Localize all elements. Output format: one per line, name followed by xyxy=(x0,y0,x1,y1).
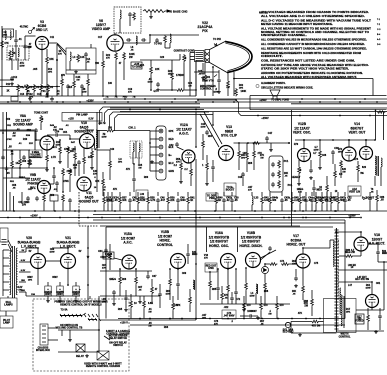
wire HV bottom rail xyxy=(291,332,336,334)
wire xyxy=(311,192,313,196)
coil T4 secondary xyxy=(139,143,140,152)
ground V8A cathode xyxy=(45,168,49,171)
integrator capacitor 1 xyxy=(271,162,275,167)
svg-text:R95: R95 xyxy=(118,309,123,311)
wire xyxy=(62,176,64,192)
svg-text:47K: 47K xyxy=(113,188,118,191)
wire anode stub xyxy=(234,78,237,80)
section horizontal output and high voltage xyxy=(287,228,387,338)
wire xyxy=(261,204,263,211)
svg-text:HORIZ. OUT: HORIZ. OUT xyxy=(287,243,306,247)
value R86 xyxy=(345,249,355,254)
junction bus y211 xyxy=(314,210,316,212)
text adj vert lin xyxy=(349,188,360,194)
flyback winding tick xyxy=(334,253,338,255)
horiz section top boundary line xyxy=(106,226,333,228)
capacitor C44 xyxy=(211,165,215,170)
coil T3 secondary xyxy=(18,48,19,57)
wire xyxy=(377,244,379,250)
CRT anode HV lead xyxy=(237,78,373,80)
CRT yoke hatch xyxy=(205,52,209,62)
coil T5 primary xyxy=(96,130,97,139)
svg-text:100K: 100K xyxy=(129,54,135,56)
wire xyxy=(367,322,369,330)
wire plug to T7 xyxy=(8,240,12,248)
svg-text:1W: 1W xyxy=(188,86,191,88)
capacitor C66 xyxy=(186,252,190,257)
wire xyxy=(19,166,21,178)
svg-text:22K: 22K xyxy=(155,69,160,71)
wire xyxy=(67,89,69,96)
resistor R41 on bus band xyxy=(187,196,190,204)
resistor bypass 2 under IF xyxy=(26,84,29,92)
junction bus y217 xyxy=(39,217,41,219)
wire xyxy=(206,170,208,182)
junction sound row xyxy=(19,167,21,169)
integrator capacitor 3 xyxy=(271,182,275,187)
junction bus y109 xyxy=(129,109,131,111)
svg-text:CONTROL: CONTROL xyxy=(339,336,351,338)
box comp above rail xyxy=(11,97,18,102)
wire diode top xyxy=(264,264,266,267)
wire x88 down xyxy=(87,285,89,300)
capacitor C54 coupling xyxy=(54,133,59,137)
integrator resistor 2 xyxy=(278,170,281,178)
section AFC and horizontal control xyxy=(98,226,198,320)
wire bus y226 xyxy=(100,225,300,227)
wire xyxy=(251,205,253,211)
wire xyxy=(311,306,313,316)
flyback winding tick xyxy=(334,232,338,234)
wire xyxy=(157,192,159,196)
wire xyxy=(107,192,109,196)
wire xyxy=(215,192,217,196)
tube V20 5U4GA xyxy=(31,254,46,269)
svg-text:R39: R39 xyxy=(26,135,31,137)
wire V3 plate to x57 xyxy=(49,42,58,44)
wire xyxy=(119,269,121,276)
wire xyxy=(190,163,192,168)
plug pin 2 xyxy=(159,137,163,141)
wire bus y325 xyxy=(130,324,345,326)
wire xyxy=(187,192,189,196)
junction bus y211 xyxy=(234,210,236,212)
wire x10 xyxy=(9,192,11,211)
wire xyxy=(75,296,77,299)
wire xyxy=(150,60,152,66)
coil L6 peaking xyxy=(136,36,137,45)
tube V15A half 6CM7 xyxy=(122,255,136,269)
svg-text:1K: 1K xyxy=(218,200,221,202)
wire xyxy=(129,203,131,211)
wire T7 to V20 xyxy=(25,248,27,252)
wire sync out row xyxy=(234,142,291,144)
svg-text:ALIGNMENT POINTS.: ALIGNMENT POINTS. xyxy=(261,82,286,85)
wire cable arrow xyxy=(82,313,86,316)
junction bus y99 xyxy=(334,98,336,100)
wire xyxy=(339,255,345,257)
junction bus y102 xyxy=(339,101,341,103)
junction corner bus b xyxy=(235,99,237,101)
T7 primary tap xyxy=(3,273,9,275)
svg-text:ALL VOLTAGES MEASURED WITH SUP: ALL VOLTAGES MEASURED WITH SUPERVISED AN… xyxy=(261,76,357,79)
cable to 8A hatched xyxy=(60,315,82,317)
wire xyxy=(281,192,283,196)
svg-text:1W: 1W xyxy=(76,80,79,82)
wire to V9B xyxy=(48,183,54,185)
junction corner bus a xyxy=(197,99,199,101)
wire HV out xyxy=(378,261,387,263)
junction bus y211 xyxy=(114,210,116,212)
svg-text:L30: L30 xyxy=(140,194,145,196)
capacitor electrolytic C90B xyxy=(57,286,63,296)
resistor R89b series xyxy=(281,263,289,266)
label tube V15A AFC xyxy=(121,232,135,245)
wire to pin 6 xyxy=(150,170,159,172)
wire xyxy=(159,297,161,308)
extra sound labels xyxy=(6,124,97,191)
wire xyxy=(238,143,240,150)
capacitor C63 xyxy=(68,198,72,203)
svg-text:ALL CONDENSER CAPACITY IN MICR: ALL CONDENSER CAPACITY IN MICROMICROFARA… xyxy=(261,43,365,46)
wire xyxy=(187,244,189,252)
resistor R92 drop xyxy=(243,302,246,310)
junction bus y318 xyxy=(149,318,151,320)
CRT V22 envelope xyxy=(209,42,227,73)
svg-text:C51: C51 xyxy=(7,125,12,127)
label tube V16B horiz disch xyxy=(239,231,262,248)
wire xyxy=(326,192,328,196)
svg-text:1W: 1W xyxy=(18,290,21,292)
svg-text:C47: C47 xyxy=(268,132,273,135)
svg-text:10%: 10% xyxy=(3,35,7,37)
resistor R23 100K 2W xyxy=(123,52,126,60)
junction x289 bus xyxy=(288,217,290,219)
wire to V15A grid xyxy=(114,258,122,260)
pin lamp box xyxy=(62,113,102,122)
resistor R62 xyxy=(109,160,112,168)
svg-text:FED: FED xyxy=(123,97,128,99)
resistor R46 grid leak xyxy=(59,146,62,154)
svg-text:C50: C50 xyxy=(6,119,11,121)
capacitor C55b xyxy=(22,155,26,160)
svg-text:RELAY: RELAY xyxy=(76,355,84,358)
wire xyxy=(319,140,321,150)
T7 primary tap xyxy=(3,289,9,291)
label tube V15B horiz control xyxy=(157,230,173,247)
wire feed 1 xyxy=(89,296,91,299)
svg-text:C56: C56 xyxy=(22,161,27,163)
section horizontal oscillator and discharge xyxy=(200,231,296,319)
wire xyxy=(151,294,153,304)
svg-text:SYN. CLIP: SYN. CLIP xyxy=(221,134,238,138)
wire xyxy=(73,88,75,96)
svg-text:1W: 1W xyxy=(148,326,151,328)
wire xyxy=(353,255,361,257)
svg-text:L47: L47 xyxy=(348,284,353,287)
label tube V13 6BE6 xyxy=(221,125,238,138)
wire to V10 grid xyxy=(59,134,70,136)
wire stage separator x237 xyxy=(237,227,239,252)
resistor R16 xyxy=(61,78,64,86)
resistor R87 xyxy=(245,282,248,290)
wire xyxy=(266,141,268,143)
wire xyxy=(47,282,49,286)
wire xyxy=(147,271,149,274)
svg-text:GRN: GRN xyxy=(169,171,175,173)
T7 secondary tap xyxy=(19,261,26,263)
ground remote 1 xyxy=(68,338,72,341)
svg-text:470: 470 xyxy=(280,304,285,307)
wire short y80 xyxy=(0,79,14,81)
svg-text:ADJ 47K 5%: ADJ 47K 5% xyxy=(355,278,370,281)
ground sync xyxy=(205,182,209,185)
junction bus y217 xyxy=(199,217,201,219)
resistor R88 47K 1W xyxy=(311,298,314,306)
svg-text:C38: C38 xyxy=(322,155,327,157)
wire xyxy=(151,279,153,286)
resistor R37 on bus band xyxy=(119,196,122,204)
label C86 xyxy=(380,197,385,201)
wire xyxy=(376,190,378,194)
svg-text:1/2W: 1/2W xyxy=(313,150,318,152)
svg-text:R66: R66 xyxy=(122,279,127,281)
capacitor C10 xyxy=(23,44,27,49)
T7 primary tap xyxy=(3,249,9,251)
svg-text:47K: 47K xyxy=(95,180,100,183)
flyback winding tick xyxy=(334,289,338,291)
resistor bypass 5 under IF xyxy=(47,84,50,92)
vert lin adjust box xyxy=(348,186,361,196)
resistor R25 on bus band xyxy=(103,196,106,204)
svg-text:.047 600V: .047 600V xyxy=(223,314,234,317)
junction CRT xyxy=(212,66,214,68)
wire xyxy=(369,201,371,211)
wire yoke bottom row xyxy=(337,330,384,332)
junction bus y318 xyxy=(181,318,183,320)
svg-text:R60: R60 xyxy=(144,177,149,179)
svg-text:15K: 15K xyxy=(49,59,54,61)
flyback winding tick xyxy=(334,268,338,270)
svg-text:C40: C40 xyxy=(110,148,115,151)
junction bus y217 xyxy=(87,217,89,219)
svg-text:ALL VOLTAGE MEASUREMENTS TO BE: ALL VOLTAGE MEASUREMENTS TO BE MADE WITH… xyxy=(261,27,372,30)
wire xyxy=(183,62,185,89)
integrator capacitor 2 xyxy=(271,172,275,177)
capacitor C60 xyxy=(77,160,81,165)
coil L5 peaking xyxy=(120,10,121,19)
wire xyxy=(109,244,111,252)
flyback winding tick xyxy=(334,262,338,264)
junction bus y318 xyxy=(139,318,141,320)
junction vert row xyxy=(303,139,305,141)
T6 core b xyxy=(378,156,380,176)
svg-text:6.3V: 6.3V xyxy=(89,119,94,121)
junction bus y217 xyxy=(239,217,241,219)
wire remote vertical x99 xyxy=(98,305,100,352)
wire xyxy=(315,204,317,211)
svg-text:1/2W: 1/2W xyxy=(19,66,24,68)
wire xyxy=(302,293,304,300)
label tube V12A AGC xyxy=(176,123,192,136)
resistor R98 xyxy=(221,292,224,300)
wire V17 plate xyxy=(302,248,304,254)
wire xyxy=(321,192,323,196)
flyback core line 2 xyxy=(337,240,339,300)
wire xyxy=(19,150,21,158)
pilot lamp box xyxy=(0,316,13,328)
svg-text:C67: C67 xyxy=(152,276,157,278)
junction bus y211 xyxy=(294,210,296,212)
svg-text:+135V: +135V xyxy=(86,99,94,102)
capacitor C74 xyxy=(268,246,272,251)
resistor R70 xyxy=(319,150,322,158)
svg-text:5V: 5V xyxy=(29,251,32,253)
wire xyxy=(379,308,381,314)
wire xyxy=(291,192,293,196)
wire T7 left xyxy=(2,250,4,296)
resistor R102 top right xyxy=(376,194,379,202)
wire vertical x57 xyxy=(56,44,58,96)
wire xyxy=(260,296,262,302)
wire xyxy=(187,257,189,264)
wire xyxy=(337,192,339,196)
capacitor C43 sync xyxy=(205,130,209,135)
tube V16B half 6SN7 xyxy=(246,253,261,268)
wire xyxy=(227,88,229,96)
ground electrolytic xyxy=(58,299,62,302)
wire V21 drop xyxy=(67,269,69,286)
wire pot top xyxy=(179,54,181,60)
wire xyxy=(202,63,204,70)
svg-text:SWITCH: SWITCH xyxy=(113,345,123,347)
wire HV lead drop xyxy=(372,79,374,96)
wire xyxy=(227,292,229,304)
svg-text:ALL RESISTORS ARE 1/2 WATT CAR: ALL RESISTORS ARE 1/2 WATT CARBON, 10% U… xyxy=(261,47,367,50)
svg-text:47K: 47K xyxy=(126,168,131,171)
resistor R51 xyxy=(19,158,22,166)
wire xyxy=(218,70,220,78)
wire xyxy=(59,154,61,160)
flyback winding tick xyxy=(334,235,338,237)
T7 secondary tap xyxy=(19,251,26,253)
tube V14 triode 1 xyxy=(342,147,356,161)
svg-text:L33: L33 xyxy=(254,198,259,200)
junction bus y217 xyxy=(159,217,161,219)
capacitor C67b xyxy=(112,290,116,295)
svg-text:C53: C53 xyxy=(59,129,64,131)
L4 core xyxy=(257,284,259,294)
wire xyxy=(379,319,381,330)
wire xyxy=(83,164,85,174)
text on switch xyxy=(56,325,83,329)
wire xyxy=(240,315,248,317)
wire xyxy=(223,192,225,196)
junction bus y318 xyxy=(261,318,263,320)
wire xyxy=(218,83,220,90)
capacitor C69 xyxy=(176,282,180,287)
svg-text:C64: C64 xyxy=(98,250,103,253)
ground C67b xyxy=(112,302,116,305)
value C66 xyxy=(192,252,198,256)
svg-text:1/2W: 1/2W xyxy=(101,137,106,139)
wire yoke row xyxy=(356,309,384,311)
wire +130V bus xyxy=(0,217,360,219)
svg-text:WIDTH: WIDTH xyxy=(341,333,349,335)
label CRT V22 21ACP4A PIX xyxy=(198,21,214,33)
svg-text:METER HAVING 11 MEGOHM INPUT R: METER HAVING 11 MEGOHM INPUT RESISTANCE. xyxy=(261,23,333,26)
wire xyxy=(215,204,217,211)
label tube V18 1B3GT xyxy=(369,233,386,246)
wire bus y104 right xyxy=(291,103,387,105)
text C73 xyxy=(223,313,234,317)
boxed label TO DEF PWR xyxy=(206,193,218,201)
flyback winding tick xyxy=(334,298,338,300)
svg-text:470K: 470K xyxy=(6,138,12,141)
svg-text:10%: 10% xyxy=(338,152,342,154)
svg-text:C57: C57 xyxy=(28,189,33,191)
svg-text:1/2W: 1/2W xyxy=(365,288,370,290)
text red dot 470K xyxy=(206,266,217,271)
tube V21 5U4GA xyxy=(61,254,76,269)
wire V17 plate to flyback xyxy=(303,247,330,249)
svg-text:1/2W: 1/2W xyxy=(147,82,152,84)
svg-text:220: 220 xyxy=(108,128,113,130)
wire xyxy=(167,204,169,211)
T5 core line b xyxy=(98,130,100,148)
wire AFC row y271 xyxy=(100,270,152,272)
wire xyxy=(61,86,63,96)
wire xyxy=(87,86,89,96)
boxed component C73 xyxy=(222,310,236,319)
svg-text:1M: 1M xyxy=(318,200,321,202)
wire to pin 1 xyxy=(150,130,159,132)
wire vertical x196 xyxy=(195,60,197,96)
wire xyxy=(109,168,111,180)
tube V17 6CD6A xyxy=(296,254,310,268)
wire xyxy=(260,310,262,318)
wire xyxy=(46,49,48,56)
svg-text:47K: 47K xyxy=(53,129,57,132)
svg-text:COIL RESISTANCES NOT LISTED AR: COIL RESISTANCES NOT LISTED ARE UNDER ON… xyxy=(261,60,355,63)
wire to pin 5 xyxy=(150,162,159,164)
wire vertical x6 xyxy=(6,112,8,192)
capacitor C51 on bus band xyxy=(310,198,314,203)
wire xyxy=(149,130,151,133)
tube V13 6BE6 xyxy=(219,146,234,161)
svg-text:SLO-BLO: SLO-BLO xyxy=(283,332,294,334)
wire V14b plate xyxy=(365,140,367,147)
svg-text:100K: 100K xyxy=(241,91,247,93)
junction bus y115 xyxy=(339,115,341,117)
wire V18 cathode xyxy=(360,251,362,256)
wire xyxy=(231,301,233,304)
T7 secondary tap xyxy=(19,281,26,283)
wire xyxy=(69,176,71,192)
wire xyxy=(147,192,149,196)
selenium diode xyxy=(262,267,269,274)
resistor R89b 47K 5% xyxy=(311,320,319,323)
svg-text:CATHODE RAY TUBE AND ANODE VOL: CATHODE RAY TUBE AND ANODE VOLTAGE MEASU… xyxy=(261,64,369,67)
junction bus y102 xyxy=(359,101,361,103)
junction bus y102 xyxy=(56,101,58,103)
label tube V16A horiz osc xyxy=(209,231,230,248)
resistor R39 on bus band xyxy=(167,196,170,204)
flyback winding tick xyxy=(334,277,338,279)
wire xyxy=(25,292,27,296)
svg-text:TO PIX: TO PIX xyxy=(154,44,162,46)
wire into detector box xyxy=(57,44,66,55)
